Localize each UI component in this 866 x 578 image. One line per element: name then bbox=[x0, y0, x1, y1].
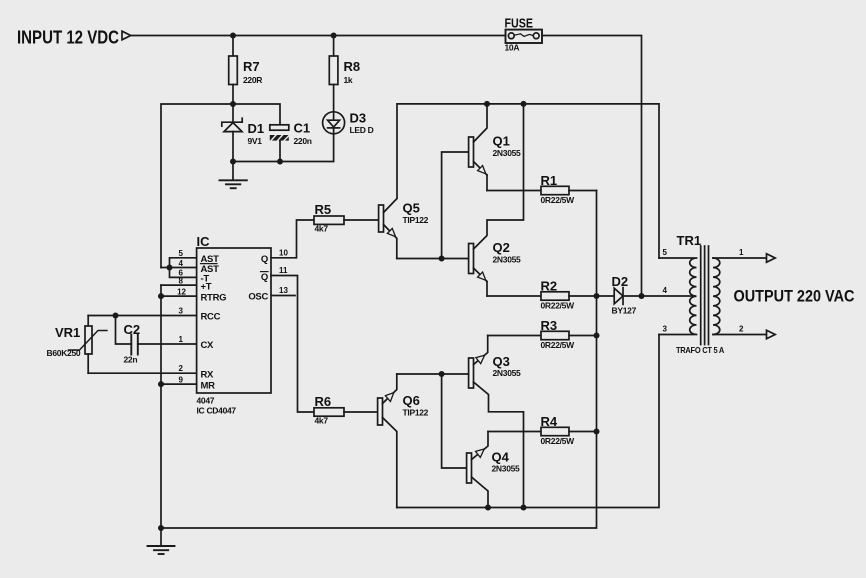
svg-text:10: 10 bbox=[279, 248, 288, 257]
wire Q1 base riser bbox=[442, 152, 469, 259]
pin 12 RTRG stub bbox=[161, 287, 226, 303]
svg-text:4: 4 bbox=[179, 259, 184, 268]
pin 13 OSC stub bbox=[248, 286, 295, 303]
svg-text:OSC: OSC bbox=[248, 292, 268, 303]
resistor R5 bbox=[314, 202, 378, 234]
svg-text:C2: C2 bbox=[124, 322, 141, 337]
node Q4 collector junction bbox=[485, 505, 491, 511]
node R8 top junction bbox=[331, 33, 337, 39]
wire left VDD rail (R7 bottom to IC pins and C1) bbox=[161, 104, 280, 268]
wire collector bus to TR1 pin3 bbox=[397, 335, 659, 508]
svg-text:0R22/5W: 0R22/5W bbox=[541, 436, 576, 446]
svg-text:2N3055: 2N3055 bbox=[493, 148, 522, 158]
wire Q5 emitter to Q1/Q2 bases bbox=[397, 258, 469, 260]
svg-text:IC CD4047: IC CD4047 bbox=[197, 406, 237, 416]
potentiometer VR1 bbox=[47, 316, 108, 374]
svg-text:3: 3 bbox=[663, 325, 668, 334]
svg-text:5: 5 bbox=[663, 248, 668, 257]
svg-text:Q3: Q3 bbox=[493, 354, 510, 369]
svg-text:2N3055: 2N3055 bbox=[492, 464, 521, 474]
pin 2 TR1 output wire bbox=[713, 325, 775, 339]
svg-text:FUSE: FUSE bbox=[505, 15, 534, 30]
pin 5 TR1 wire bbox=[659, 248, 694, 258]
svg-text:Q: Q bbox=[261, 272, 268, 283]
node Q2 collector junction bbox=[521, 101, 527, 107]
svg-text:R5: R5 bbox=[315, 202, 332, 217]
svg-text:2N3055: 2N3055 bbox=[493, 368, 522, 378]
svg-text:R2: R2 bbox=[541, 279, 558, 294]
svg-text:D3: D3 bbox=[350, 111, 367, 126]
svg-text:Q2: Q2 bbox=[493, 240, 510, 255]
svg-text:5: 5 bbox=[179, 249, 184, 258]
node pin 9 junction bbox=[158, 381, 164, 387]
svg-text:IC: IC bbox=[197, 234, 211, 249]
resistor R3 bbox=[488, 318, 575, 350]
pin 5 AST stub bbox=[170, 249, 220, 278]
wire R3 to common chain bbox=[569, 335, 597, 337]
node Q4 base junction bbox=[439, 371, 445, 377]
node R7 top junction bbox=[230, 33, 236, 39]
node Q1 base junction bbox=[439, 256, 445, 262]
svg-text:8: 8 bbox=[179, 276, 184, 285]
svg-text:RCC: RCC bbox=[201, 312, 221, 323]
svg-text:R8: R8 bbox=[344, 59, 361, 74]
svg-text:B60K250: B60K250 bbox=[47, 348, 81, 358]
pin 11 /Q wire to R6 bbox=[261, 266, 315, 412]
fuse FUSE bbox=[505, 15, 543, 52]
transformer TR1 bbox=[676, 233, 724, 355]
resistor R8 bbox=[329, 36, 360, 112]
svg-text:VR1: VR1 bbox=[55, 325, 80, 340]
node pin 12 junction bbox=[158, 293, 164, 299]
wire Q6 collector to Q3/Q4 bases bbox=[397, 373, 469, 375]
svg-text:TRAFO CT 5 A: TRAFO CT 5 A bbox=[676, 345, 724, 355]
node R7 bottom junction bbox=[230, 101, 236, 107]
svg-text:RX: RX bbox=[201, 369, 215, 380]
svg-text:R3: R3 bbox=[541, 318, 558, 333]
node ground rail left junction bbox=[158, 525, 164, 531]
IC U1 CD4047 body bbox=[197, 234, 272, 416]
svg-text:1: 1 bbox=[179, 335, 184, 344]
svg-text:TIP122: TIP122 bbox=[403, 215, 429, 225]
transistor Q3 2N3055 bbox=[469, 336, 524, 508]
svg-text:2N3055: 2N3055 bbox=[493, 255, 522, 265]
svg-text:D1: D1 bbox=[248, 121, 265, 136]
svg-text:Q6: Q6 bbox=[403, 393, 420, 408]
wire R2 to common chain bbox=[569, 295, 597, 297]
wire top collector rail (Q5 collector to TR1 pin5) bbox=[397, 104, 659, 258]
svg-text:Q1: Q1 bbox=[493, 134, 510, 149]
svg-text:220n: 220n bbox=[294, 136, 312, 146]
svg-text:1k: 1k bbox=[344, 75, 353, 85]
svg-text:4k7: 4k7 bbox=[315, 224, 329, 234]
pin 1 TR1 output wire bbox=[713, 248, 775, 262]
svg-text:1: 1 bbox=[739, 248, 744, 257]
transistor Q2 2N3055 bbox=[469, 104, 524, 296]
svg-text:4k7: 4k7 bbox=[315, 416, 329, 426]
transistor Q5 TIP122 bbox=[379, 199, 429, 259]
pin 10 Q wire to R5 bbox=[261, 220, 314, 265]
node fuse line junction bbox=[639, 293, 645, 299]
node D1 bottom junction bbox=[230, 159, 236, 165]
svg-text:9V1: 9V1 bbox=[248, 136, 263, 146]
svg-text:Q: Q bbox=[261, 254, 268, 265]
node R3 junction bbox=[594, 333, 600, 339]
resistor R7 bbox=[229, 36, 263, 105]
pin 2 RX wire to VR1 bottom bbox=[88, 364, 214, 380]
svg-text:Q4: Q4 bbox=[492, 450, 510, 465]
svg-text:LED D: LED D bbox=[350, 125, 374, 135]
svg-text:BY127: BY127 bbox=[612, 306, 637, 316]
svg-text:13: 13 bbox=[279, 286, 288, 295]
svg-text:CX: CX bbox=[201, 340, 215, 351]
node R4 junction bbox=[594, 429, 600, 435]
ground (under D1) bbox=[220, 162, 247, 189]
svg-text:OUTPUT 220 VAC: OUTPUT 220 VAC bbox=[734, 288, 855, 306]
wire R4 to common chain bbox=[569, 431, 597, 433]
wire R-chain common vertical and ground rail bbox=[161, 191, 597, 529]
transistor Q1 2N3055 bbox=[469, 104, 521, 191]
input terminal arrow bbox=[122, 31, 131, 40]
svg-text:2: 2 bbox=[739, 325, 744, 334]
ground (bottom rail) bbox=[148, 528, 175, 554]
svg-text:Q5: Q5 bbox=[403, 201, 420, 216]
wire D1/C1/D3 bottom bus bbox=[233, 134, 334, 162]
svg-text:INPUT 12 VDC: INPUT 12 VDC bbox=[17, 28, 119, 48]
svg-text:R1: R1 bbox=[541, 173, 558, 188]
svg-text:0R22/5W: 0R22/5W bbox=[541, 195, 576, 205]
node R2 junction bbox=[594, 293, 600, 299]
svg-text:MR: MR bbox=[201, 380, 216, 391]
svg-text:11: 11 bbox=[279, 266, 288, 275]
zener diode D1 bbox=[222, 104, 264, 162]
svg-text:9: 9 bbox=[179, 375, 184, 384]
pin 9 MR stub bbox=[161, 375, 215, 391]
pin 1 CX wire to C2 bbox=[138, 335, 214, 351]
svg-text:+T: +T bbox=[201, 281, 212, 292]
svg-text:TIP122: TIP122 bbox=[403, 408, 429, 418]
svg-text:10A: 10A bbox=[505, 43, 520, 53]
wire fuse to D2/TR1 center tap bbox=[542, 36, 642, 297]
svg-text:3: 3 bbox=[179, 307, 184, 316]
svg-text:0R22/5W: 0R22/5W bbox=[541, 340, 576, 350]
capacitor C2 bbox=[116, 316, 141, 365]
diode D2 BY127 bbox=[597, 274, 695, 316]
capacitor C1 bbox=[270, 121, 312, 162]
resistor R1 bbox=[487, 173, 575, 205]
svg-text:RTRG: RTRG bbox=[201, 292, 227, 303]
node Q3 collector junction bbox=[521, 505, 527, 511]
svg-text:4047: 4047 bbox=[197, 396, 215, 406]
node Q1 collector junction bbox=[484, 101, 490, 107]
svg-text:C1: C1 bbox=[294, 121, 311, 136]
svg-text:4: 4 bbox=[663, 286, 668, 295]
svg-text:D2: D2 bbox=[612, 274, 629, 289]
LED D3 bbox=[323, 111, 374, 135]
wire R1 to common chain bbox=[569, 190, 597, 192]
node pin4/5/6 junction bbox=[167, 265, 173, 271]
pin 3 RCC wire to VR1 bbox=[88, 307, 220, 323]
node C1 bottom junction bbox=[277, 159, 283, 165]
svg-text:TR1: TR1 bbox=[677, 233, 702, 248]
pin 8 +T stub bbox=[161, 276, 212, 292]
transistor Q6 TIP122 bbox=[378, 374, 429, 508]
svg-text:12: 12 bbox=[177, 287, 186, 296]
svg-text:R4: R4 bbox=[541, 414, 558, 429]
svg-text:R7: R7 bbox=[243, 59, 260, 74]
wire IC ground line to bottom rail bbox=[160, 285, 162, 528]
pin 6 -T label bbox=[179, 269, 210, 285]
wire input rail to fuse bbox=[131, 35, 506, 37]
wire Q4 base dropper bbox=[442, 374, 467, 468]
resistor R2 bbox=[487, 279, 575, 311]
pin 4 /AST stub bbox=[161, 259, 219, 275]
transistor Q4 2N3055 bbox=[467, 432, 520, 508]
node C2 branch junction bbox=[113, 313, 119, 319]
resistor R4 bbox=[488, 414, 575, 446]
svg-text:220R: 220R bbox=[243, 75, 262, 85]
svg-text:2: 2 bbox=[179, 364, 184, 373]
svg-text:0R22/5W: 0R22/5W bbox=[541, 301, 576, 311]
pin 3 TR1 wire bbox=[659, 325, 694, 335]
svg-text:R6: R6 bbox=[315, 394, 332, 409]
svg-text:22n: 22n bbox=[124, 355, 138, 365]
resistor R6 bbox=[314, 394, 378, 426]
